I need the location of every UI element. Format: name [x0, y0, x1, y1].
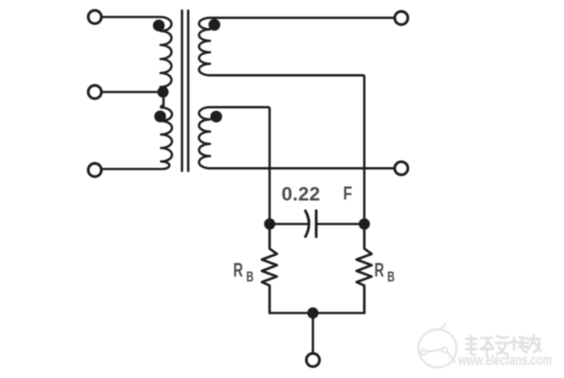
svg-text:B: B [246, 269, 253, 285]
winding L2 (primary lower half) with wire to terminal T3 [96, 92, 172, 169]
capacitor C1 right plate [315, 211, 318, 237]
wire T2 to center tap [96, 91, 161, 93]
terminal T2 [88, 85, 101, 98]
capacitor C1 0.22uF left curved plate [305, 211, 309, 237]
junction node B [359, 218, 370, 229]
svg-text:R: R [233, 259, 243, 281]
wire capacitor to node B [316, 223, 364, 225]
winding R2 (secondary lower) with wire down to node A and wire to terminal T5 [199, 107, 400, 224]
svg-text:F: F [343, 183, 352, 204]
junction node A [264, 218, 275, 229]
watermark [419, 324, 457, 368]
stub wire to terminal T6 [312, 313, 314, 354]
bottom wire between resistors [270, 312, 365, 314]
resistor R_B left (zigzag) with wires [262, 224, 277, 313]
winding R1 (secondary upper) with wire to terminal T4 and wire down to node B [199, 18, 400, 224]
terminal T6 [306, 353, 319, 366]
svg-text:R: R [374, 259, 384, 281]
junction dot bottom center [307, 307, 318, 318]
resistor R_B right (zigzag) with wires [357, 224, 372, 313]
terminal T5 [395, 162, 408, 175]
phase dot winding L2 [154, 111, 166, 123]
core line left [181, 11, 183, 172]
terminal T1 [88, 10, 101, 23]
core line right [187, 11, 189, 172]
wire node A to capacitor [270, 223, 309, 225]
phase dot winding R2 [210, 111, 222, 123]
phase dot winding R1 [209, 19, 221, 31]
phase dot winding L1 [153, 20, 165, 32]
svg-text:0.22: 0.22 [282, 184, 321, 206]
svg-text:B: B [387, 269, 394, 285]
junction dot center tap J1 [157, 86, 168, 97]
winding L1 (primary upper half) with wire to terminal T1 [96, 17, 172, 90]
terminal T3 [88, 163, 101, 176]
svg-text:www.elecfans.com: www.elecfans.com [458, 351, 552, 368]
terminal T4 [395, 11, 408, 24]
